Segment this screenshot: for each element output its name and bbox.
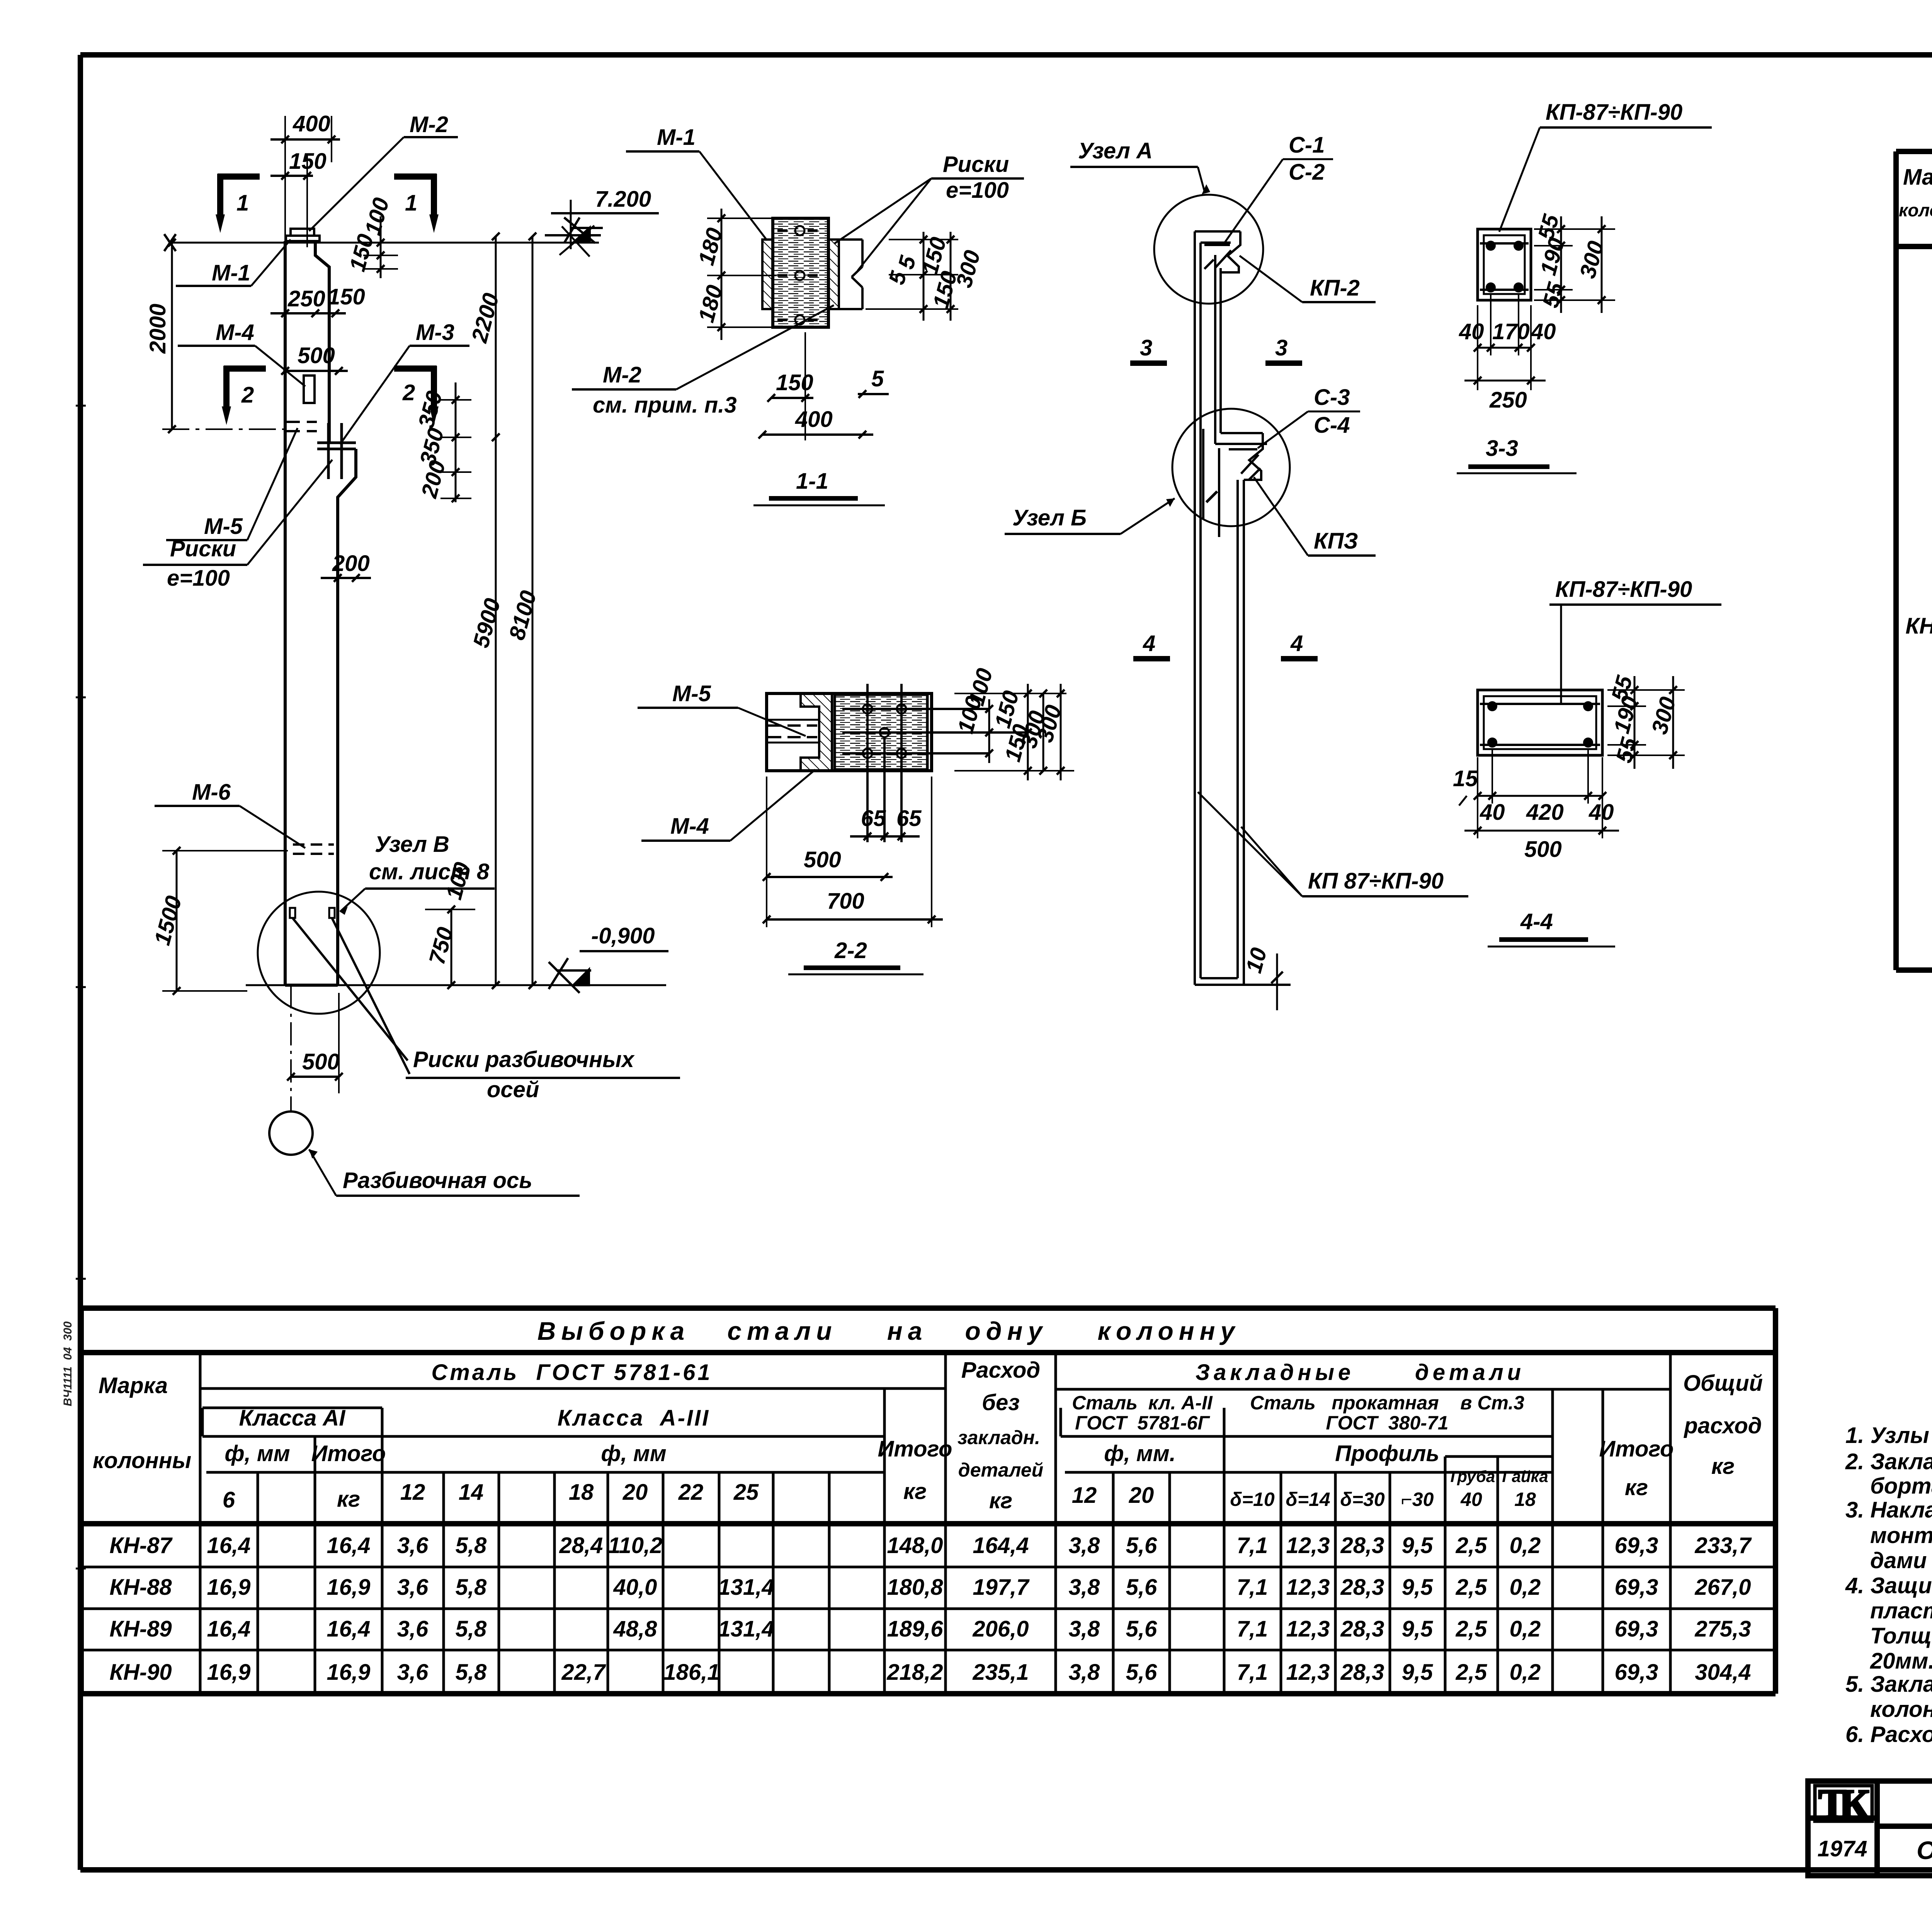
svg-text:2,5: 2,5 bbox=[1456, 1660, 1487, 1685]
svg-text:9,5: 9,5 bbox=[1402, 1533, 1433, 1558]
4-4 dims bottom 40 420 40 500 15 bbox=[1464, 749, 1619, 838]
svg-text:267,0: 267,0 bbox=[1694, 1575, 1751, 1600]
svg-text:М-5: М-5 bbox=[672, 681, 711, 706]
svg-text:69,3: 69,3 bbox=[1615, 1660, 1658, 1685]
svg-text:ф, мм.: ф, мм. bbox=[1104, 1441, 1175, 1466]
left elevation: top level line 7.200 bbox=[164, 218, 603, 251]
svg-text:28,3: 28,3 bbox=[1340, 1533, 1384, 1558]
svg-text:218,2: 218,2 bbox=[886, 1660, 943, 1685]
svg-text:0,2: 0,2 bbox=[1510, 1533, 1541, 1558]
svg-text:ГОСТ 380-71: ГОСТ 380-71 bbox=[1326, 1412, 1448, 1434]
svg-text:6. Расход стали дан без уч: 6. Расход стали дан без учета отходов пр… bbox=[1845, 1722, 1932, 1747]
svg-text:e=100: e=100 bbox=[167, 566, 230, 591]
svg-text:3. Накладную деталь М-2: 3. Накладную деталь М-2 приварить к М-1 … bbox=[1845, 1497, 1932, 1523]
svg-text:25: 25 bbox=[733, 1480, 759, 1505]
svg-text:180,8: 180,8 bbox=[887, 1575, 943, 1600]
svg-text:КН-87: КН-87 bbox=[1905, 614, 1932, 639]
svg-text:Профиль: Профиль bbox=[1335, 1441, 1439, 1466]
svg-text:12,3: 12,3 bbox=[1286, 1575, 1330, 1600]
section mark 1 left bbox=[218, 174, 260, 216]
svg-text:3,8: 3,8 bbox=[1069, 1575, 1100, 1600]
svg-text:12: 12 bbox=[1072, 1483, 1097, 1508]
svg-text:Класса АI: Класса АI bbox=[239, 1405, 346, 1431]
svg-text:131,4: 131,4 bbox=[718, 1616, 774, 1642]
svg-text:500: 500 bbox=[804, 847, 841, 872]
svg-text:12: 12 bbox=[400, 1480, 425, 1505]
4-4 dims right 55 190 55 300 bbox=[1607, 676, 1685, 769]
dimension 8100 bbox=[529, 233, 536, 989]
svg-text:9,5: 9,5 bbox=[1402, 1575, 1433, 1600]
2-2 channel M-5 bbox=[801, 693, 832, 771]
svg-text:16,4: 16,4 bbox=[207, 1616, 251, 1642]
svg-text:Выборка стали на одну: Выборка стали на одну колонну bbox=[537, 1317, 1240, 1345]
svg-text:40: 40 bbox=[1459, 319, 1484, 344]
svg-text:7,1: 7,1 bbox=[1237, 1575, 1268, 1600]
bottom level line -0.900 bbox=[246, 951, 668, 993]
svg-text:233,7: 233,7 bbox=[1694, 1533, 1752, 1558]
svg-text:189,6: 189,6 bbox=[887, 1616, 943, 1642]
spec table header text bbox=[1899, 161, 1932, 246]
3-3 dims right 55 190 55 300 bbox=[1534, 216, 1615, 313]
svg-text:3: 3 bbox=[1275, 335, 1287, 360]
svg-text:КН-90: КН-90 bbox=[109, 1660, 172, 1685]
svg-text:7,1: 7,1 bbox=[1237, 1616, 1268, 1642]
middle column formwork view bbox=[1195, 231, 1291, 985]
svg-text:Толщина защитного слоя дол: Толщина защитного слоя должна быть не ме… bbox=[1870, 1623, 1932, 1648]
svg-text:1: 1 bbox=[405, 190, 417, 216]
M-6 dashed marks bbox=[293, 845, 334, 854]
svg-text:М-2: М-2 bbox=[603, 362, 641, 387]
risk marks in uzel V bbox=[290, 908, 295, 918]
svg-text:235,1: 235,1 bbox=[972, 1660, 1029, 1685]
title block bbox=[1808, 1781, 1932, 1876]
console plate M-3 bbox=[317, 423, 356, 479]
svg-text:М-2: М-2 bbox=[410, 112, 448, 137]
svg-text:2. Закладные детали М-1,: 2. Закладные детали М-1, М-3 и М-4 крепя… bbox=[1845, 1449, 1932, 1474]
svg-text:1. Узлы А и Б см. на листа: 1. Узлы А и Б см. на листах 41, 42 серии… bbox=[1845, 1423, 1932, 1448]
M-5 dashed marks bbox=[287, 422, 317, 431]
svg-text:М-5: М-5 bbox=[204, 514, 243, 539]
svg-text:3,6: 3,6 bbox=[397, 1660, 429, 1685]
svg-text:Марка: Марка bbox=[99, 1373, 168, 1398]
svg-text:40: 40 bbox=[1588, 800, 1614, 825]
section mark 1 right bbox=[394, 174, 437, 216]
svg-text:22,7: 22,7 bbox=[561, 1660, 607, 1685]
svg-text:500: 500 bbox=[1524, 837, 1562, 862]
svg-text:28,3: 28,3 bbox=[1340, 1660, 1384, 1685]
svg-text:12,3: 12,3 bbox=[1286, 1660, 1330, 1685]
svg-text:КП 87÷КП-90: КП 87÷КП-90 bbox=[1308, 868, 1444, 894]
svg-text:9,5: 9,5 bbox=[1402, 1660, 1433, 1685]
svg-text:2,5: 2,5 bbox=[1456, 1616, 1487, 1642]
svg-text:48,8: 48,8 bbox=[613, 1616, 658, 1642]
svg-text:КН-89: КН-89 bbox=[109, 1616, 172, 1642]
svg-text:1: 1 bbox=[236, 190, 249, 216]
svg-text:150: 150 bbox=[776, 370, 813, 395]
svg-text:δ=30: δ=30 bbox=[1340, 1489, 1385, 1510]
svg-text:⌐30: ⌐30 bbox=[1401, 1489, 1434, 1510]
svg-text:без: без bbox=[982, 1390, 1020, 1415]
svg-text:275,3: 275,3 bbox=[1694, 1616, 1751, 1642]
svg-text:65: 65 bbox=[861, 806, 886, 831]
svg-text:14: 14 bbox=[459, 1480, 484, 1505]
svg-text:С-2: С-2 bbox=[1289, 160, 1325, 185]
svg-text:28,4: 28,4 bbox=[559, 1533, 603, 1558]
svg-text:2,5: 2,5 bbox=[1456, 1533, 1487, 1558]
1-1 plate M-1 right bbox=[828, 240, 839, 309]
M-1 plate on top bbox=[286, 236, 320, 241]
svg-text:2000: 2000 bbox=[145, 304, 170, 354]
svg-text:4-4: 4-4 bbox=[1520, 909, 1553, 934]
svg-text:400: 400 bbox=[293, 111, 330, 136]
1-1 plate M-2 left bbox=[762, 240, 773, 309]
dimension 1500 bbox=[162, 847, 288, 995]
svg-text:см. прим. п.3: см. прим. п.3 bbox=[593, 393, 737, 418]
svg-text:5,8: 5,8 bbox=[456, 1616, 487, 1642]
svg-text:кг: кг bbox=[903, 1479, 927, 1504]
svg-text:Гайка: Гайка bbox=[1502, 1467, 1548, 1485]
svg-text:ф, мм: ф, мм bbox=[601, 1441, 666, 1466]
svg-text:148,0: 148,0 bbox=[887, 1533, 943, 1558]
svg-text:Сталь прокатная в Ст.3: Сталь прокатная в Ст.3 bbox=[1250, 1392, 1524, 1414]
2-2 dashed opening bbox=[768, 726, 817, 737]
svg-text:2: 2 bbox=[241, 382, 254, 408]
svg-text:-0,900: -0,900 bbox=[591, 923, 655, 948]
svg-text:6: 6 bbox=[223, 1487, 235, 1513]
svg-text:кг: кг bbox=[989, 1488, 1012, 1513]
svg-text:Закладные детали: Закладные детали bbox=[1196, 1360, 1525, 1385]
svg-text:170: 170 bbox=[1492, 319, 1530, 344]
svg-text:110,2: 110,2 bbox=[608, 1533, 663, 1558]
svg-text:колонны из формы их уста: колонны из формы их установку см. на лис… bbox=[1870, 1697, 1932, 1722]
svg-text:1974: 1974 bbox=[1817, 1836, 1867, 1861]
svg-text:М-1: М-1 bbox=[212, 260, 250, 286]
svg-text:1-1: 1-1 bbox=[796, 469, 828, 494]
svg-text:Класса А-III: Класса А-III bbox=[558, 1405, 710, 1431]
svg-text:e=100: e=100 bbox=[946, 178, 1009, 203]
svg-text:КН-88: КН-88 bbox=[109, 1575, 172, 1600]
1-1 concrete block bbox=[773, 218, 828, 327]
svg-text:5,6: 5,6 bbox=[1126, 1660, 1157, 1685]
section 4-4 bbox=[1478, 690, 1602, 755]
dimension 5900 bbox=[492, 437, 500, 989]
svg-text:4: 4 bbox=[1143, 631, 1155, 656]
dimension 250 150 bbox=[270, 309, 346, 317]
1-1 bolts bbox=[795, 226, 804, 235]
svg-text:12,3: 12,3 bbox=[1286, 1616, 1330, 1642]
svg-text:7,1: 7,1 bbox=[1237, 1533, 1268, 1558]
C-1 C-2 bar in uzel A bbox=[1204, 245, 1231, 269]
small tick on left border bbox=[76, 406, 86, 1569]
svg-text:дами типа Э42 ГОСТ 9467-6: дами типа Э42 ГОСТ 9467-60, hш = 8мм. bbox=[1870, 1548, 1932, 1573]
svg-text:40: 40 bbox=[1531, 319, 1556, 344]
2-2 dim 700 bbox=[763, 777, 943, 927]
svg-text:304,4: 304,4 bbox=[1695, 1660, 1751, 1685]
svg-text:кг: кг bbox=[337, 1487, 360, 1512]
svg-text:69,3: 69,3 bbox=[1615, 1533, 1658, 1558]
section mark 2 right bbox=[394, 366, 437, 409]
svg-text:М-4: М-4 bbox=[216, 320, 254, 345]
svg-text:Марка: Марка bbox=[1903, 165, 1932, 190]
1-1 rib with riska notch bbox=[839, 240, 862, 309]
svg-text:3,8: 3,8 bbox=[1069, 1660, 1100, 1685]
svg-text:3,6: 3,6 bbox=[397, 1616, 429, 1642]
3-3 dims bottom 40 170 40 250 bbox=[1464, 294, 1546, 390]
svg-text:колонны: колонны bbox=[1899, 200, 1932, 220]
svg-text:кг: кг bbox=[1625, 1475, 1648, 1500]
svg-text:420: 420 bbox=[1526, 800, 1564, 825]
svg-text:Узел В: Узел В bbox=[375, 832, 449, 857]
svg-text:20: 20 bbox=[622, 1480, 648, 1505]
svg-text:Опалубочно- арматурный черте: Опалубочно- арматурный чертеж. bbox=[1917, 1836, 1932, 1864]
svg-text:22: 22 bbox=[678, 1480, 704, 1505]
1-1 dim 5 right bbox=[858, 390, 889, 398]
svg-text:М-1: М-1 bbox=[657, 125, 696, 150]
svg-text:Сталь ГОСТ 5781-61: Сталь ГОСТ 5781-61 bbox=[431, 1360, 712, 1385]
svg-text:150: 150 bbox=[328, 284, 365, 309]
svg-text:ф, мм: ф, мм bbox=[224, 1441, 290, 1466]
1-1 dim 180 180 left bbox=[707, 209, 777, 340]
svg-text:ВЧ1111 04 300: ВЧ1111 04 300 bbox=[61, 1321, 74, 1406]
svg-text:400: 400 bbox=[795, 407, 833, 432]
svg-text:Итого: Итого bbox=[878, 1436, 952, 1462]
svg-text:Риски: Риски bbox=[943, 152, 1009, 177]
svg-text:3: 3 bbox=[1140, 335, 1152, 360]
svg-text:0,2: 0,2 bbox=[1510, 1616, 1541, 1642]
dim 300 left of lower strip bbox=[1022, 690, 1066, 775]
svg-text:С-3: С-3 bbox=[1314, 385, 1350, 410]
svg-text:осей: осей bbox=[487, 1077, 539, 1102]
svg-text:3,6: 3,6 bbox=[397, 1533, 429, 1558]
svg-text:деталей: деталей bbox=[958, 1459, 1043, 1481]
svg-text:КПЗ: КПЗ bbox=[1314, 529, 1358, 554]
svg-text:3,8: 3,8 bbox=[1069, 1616, 1100, 1642]
svg-text:3,6: 3,6 bbox=[397, 1575, 429, 1600]
2-2 dim 65 65 bbox=[850, 833, 920, 840]
razbivochnaya axis circle bbox=[269, 1111, 313, 1155]
dimension 150 top bbox=[270, 155, 313, 247]
vyborka stali table bbox=[81, 1308, 1776, 1694]
2-2 dims right 100 100 150 150 300 bbox=[954, 684, 1074, 780]
svg-text:Общий: Общий bbox=[1683, 1371, 1763, 1396]
2-2 outer rect bbox=[767, 693, 932, 771]
svg-text:δ=10: δ=10 bbox=[1230, 1489, 1275, 1510]
svg-text:15: 15 bbox=[1453, 766, 1478, 791]
svg-text:18: 18 bbox=[569, 1480, 594, 1505]
svg-text:250: 250 bbox=[287, 286, 325, 311]
svg-text:колонны: колонны bbox=[93, 1448, 191, 1473]
svg-text:16,9: 16,9 bbox=[327, 1575, 371, 1600]
svg-text:ТК: ТК bbox=[1818, 1781, 1869, 1827]
svg-text:150: 150 bbox=[289, 149, 327, 174]
M-2 plate on top bbox=[291, 229, 314, 236]
2-2 concrete block bbox=[835, 695, 927, 770]
svg-text:200: 200 bbox=[332, 551, 370, 576]
svg-text:12,3: 12,3 bbox=[1286, 1533, 1330, 1558]
svg-text:Труба: Труба bbox=[1448, 1467, 1495, 1485]
2-2 bolts bbox=[863, 704, 872, 714]
svg-text:5: 5 bbox=[871, 366, 884, 391]
svg-text:40,0: 40,0 bbox=[613, 1575, 657, 1600]
dimension 750 and 100 bbox=[425, 906, 475, 989]
svg-text:5,8: 5,8 bbox=[456, 1660, 487, 1685]
svg-text:5,6: 5,6 bbox=[1126, 1575, 1157, 1600]
svg-text:кг: кг bbox=[1711, 1454, 1735, 1479]
svg-text:5,8: 5,8 bbox=[456, 1533, 487, 1558]
svg-text:М-6: М-6 bbox=[192, 780, 231, 805]
svg-text:186,1: 186,1 bbox=[663, 1660, 719, 1685]
svg-text:16,4: 16,4 bbox=[207, 1533, 251, 1558]
svg-text:Узел А: Узел А bbox=[1078, 138, 1153, 163]
svg-text:28,3: 28,3 bbox=[1340, 1616, 1384, 1642]
spec table left rows bbox=[1905, 256, 1932, 921]
svg-text:КП-2: КП-2 bbox=[1310, 275, 1360, 301]
svg-text:5. Закладные детали М-5 и М: 5. Закладные детали М-5 и М-6 служат для… bbox=[1845, 1672, 1932, 1697]
svg-text:28,3: 28,3 bbox=[1340, 1575, 1384, 1600]
column outline bbox=[285, 241, 356, 985]
svg-text:δ=14: δ=14 bbox=[1286, 1489, 1330, 1510]
svg-text:18: 18 bbox=[1514, 1489, 1536, 1510]
svg-text:16,9: 16,9 bbox=[327, 1660, 371, 1685]
svg-text:20: 20 bbox=[1129, 1483, 1154, 1508]
svg-text:Итого: Итого bbox=[311, 1441, 386, 1466]
svg-text:5,8: 5,8 bbox=[456, 1575, 487, 1600]
svg-text:расход: расход bbox=[1683, 1413, 1762, 1438]
svg-text:5,6: 5,6 bbox=[1126, 1533, 1157, 1558]
uzel B circle bbox=[1172, 409, 1290, 526]
svg-text:69,3: 69,3 bbox=[1615, 1575, 1658, 1600]
svg-text:С-1: С-1 bbox=[1289, 133, 1325, 158]
dimension 200 at lower column bbox=[321, 574, 371, 582]
svg-text:3-3: 3-3 bbox=[1486, 436, 1518, 461]
svg-text:500: 500 bbox=[298, 343, 335, 368]
svg-text:0,2: 0,2 bbox=[1510, 1660, 1541, 1685]
svg-text:500: 500 bbox=[302, 1049, 340, 1074]
svg-text:65: 65 bbox=[896, 806, 922, 831]
svg-text:40: 40 bbox=[1480, 800, 1505, 825]
dimension chain 350 350 200 bbox=[440, 382, 471, 502]
svg-text:5,6: 5,6 bbox=[1126, 1616, 1157, 1642]
svg-text:монтажом колонны. Сварку п: монтажом колонны. Сварку производить эле… bbox=[1870, 1523, 1932, 1548]
specification table grid bbox=[1896, 151, 1932, 970]
svg-text:закладн.: закладн. bbox=[957, 1427, 1040, 1448]
svg-text:Расход: Расход bbox=[961, 1358, 1041, 1383]
svg-text:16,4: 16,4 bbox=[327, 1533, 371, 1558]
notes bbox=[1845, 1336, 1932, 1747]
dimension 400 top bbox=[270, 116, 340, 247]
svg-text:2: 2 bbox=[402, 380, 415, 405]
section 3-3 bbox=[1478, 229, 1531, 300]
dimension 2000 bbox=[162, 239, 285, 433]
leader from risks to uzel V detail bbox=[293, 918, 410, 1074]
svg-text:700: 700 bbox=[827, 889, 864, 914]
1-1 dims right side 5 5 150 150 300 bbox=[866, 232, 958, 321]
svg-text:2-2: 2-2 bbox=[834, 938, 867, 963]
svg-text:9,5: 9,5 bbox=[1402, 1616, 1433, 1642]
svg-text:Итого: Итого bbox=[1599, 1436, 1674, 1462]
svg-text:197,7: 197,7 bbox=[973, 1575, 1030, 1600]
svg-text:ГОСТ 5781-6Г: ГОСТ 5781-6Г bbox=[1075, 1412, 1210, 1434]
svg-text:4. Защитные слои бетона д: 4. Защитные слои бетона должны обеспечив… bbox=[1845, 1573, 1932, 1598]
svg-text:пластмассовыми или бетонным: пластмассовыми или бетонными фиксаторами… bbox=[1870, 1598, 1932, 1623]
2-2 dim 500 bbox=[763, 777, 893, 927]
KP-3 bars in uzel B bbox=[1203, 429, 1260, 537]
svg-text:КП-87÷КП-90: КП-87÷КП-90 bbox=[1546, 100, 1682, 125]
svg-text:131,4: 131,4 bbox=[718, 1575, 774, 1600]
svg-text:250: 250 bbox=[1489, 387, 1527, 413]
dimension chain 150 100 right of column top bbox=[363, 216, 398, 278]
svg-text:16,9: 16,9 bbox=[207, 1660, 251, 1685]
uzel A circle bbox=[1154, 195, 1263, 304]
dimension 500 bottom bbox=[287, 993, 343, 1093]
svg-text:С-4: С-4 bbox=[1314, 413, 1350, 438]
svg-text:7,1: 7,1 bbox=[1237, 1660, 1268, 1685]
svg-text:206,0: 206,0 bbox=[972, 1616, 1029, 1642]
dimension 500 bbox=[281, 367, 348, 375]
section mark 2 left bbox=[224, 366, 266, 409]
svg-text:Узел Б: Узел Б bbox=[1012, 505, 1087, 530]
svg-text:бортам формы.: бортам формы. bbox=[1870, 1473, 1932, 1499]
svg-text:М-4: М-4 bbox=[670, 814, 709, 839]
svg-text:3,8: 3,8 bbox=[1069, 1533, 1100, 1558]
svg-text:КП-87÷КП-90: КП-87÷КП-90 bbox=[1555, 577, 1692, 602]
dimension 2200 bbox=[492, 233, 500, 441]
svg-text:69,3: 69,3 bbox=[1615, 1616, 1658, 1642]
svg-text:Разбивочная ось: Разбивочная ось bbox=[343, 1168, 532, 1193]
M-4 plate bbox=[304, 376, 315, 403]
svg-text:М-3: М-3 bbox=[416, 320, 454, 345]
svg-text:4: 4 bbox=[1290, 631, 1303, 656]
svg-text:16,4: 16,4 bbox=[327, 1616, 371, 1642]
svg-text:2,5: 2,5 bbox=[1456, 1575, 1487, 1600]
1-1 dim 150 bottom bbox=[767, 332, 813, 440]
svg-text:Сталь кл. А-II: Сталь кл. А-II bbox=[1072, 1392, 1213, 1414]
svg-text:164,4: 164,4 bbox=[973, 1533, 1029, 1558]
svg-text:40: 40 bbox=[1460, 1489, 1482, 1510]
svg-text:20мм. (считая от поперечной: 20мм. (считая от поперечной арматуры). bbox=[1870, 1648, 1932, 1674]
svg-text:16,9: 16,9 bbox=[207, 1575, 251, 1600]
svg-text:7.200: 7.200 bbox=[595, 187, 651, 212]
uzel V circle bbox=[258, 892, 380, 1014]
1-1 dim 400 bottom bbox=[759, 431, 873, 438]
svg-text:0,2: 0,2 bbox=[1510, 1575, 1541, 1600]
svg-text:КН-87: КН-87 bbox=[109, 1533, 173, 1558]
svg-text:Риски разбивочных: Риски разбивочных bbox=[413, 1047, 635, 1072]
TK logo bbox=[1815, 1781, 1872, 1827]
